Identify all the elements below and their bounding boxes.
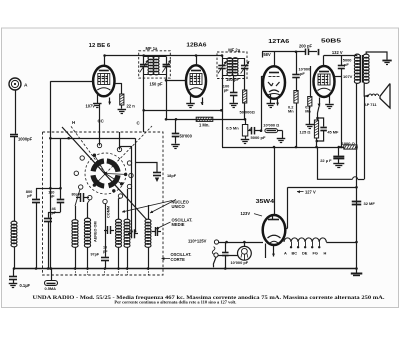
- label 150 pF (MF2a): [226, 77, 239, 82]
- wire switch contact up: [119, 132, 121, 150]
- capacitor 32MF: [352, 201, 376, 206]
- svg-text:pF: pF: [300, 71, 305, 76]
- rotary wave-band switch S1: [74, 143, 133, 203]
- V1 cathode arrow: [108, 98, 111, 105]
- svg-text:FG: FG: [313, 250, 318, 255]
- wire coil to bus: [13, 247, 16, 270]
- svg-text:Per corrente continua o altern: Per corrente continua o alternata della …: [114, 300, 236, 305]
- shield ties: [76, 269, 149, 275]
- svg-text:10'000 Ω: 10'000 Ω: [263, 122, 279, 127]
- switch blade: [213, 257, 216, 267]
- capacitor 10000pF: [292, 52, 310, 78]
- MF2a ties: [222, 59, 245, 76]
- label 12BA6: [186, 42, 207, 48]
- wire V1 grid: [50, 81, 93, 83]
- oscillator coil corte L3: [145, 205, 151, 270]
- capacitor 45MF bypass: [316, 118, 340, 142]
- label 35W4: [256, 199, 275, 205]
- svg-text:58V: 58V: [263, 52, 271, 57]
- V3 cathode arrow: [276, 98, 279, 106]
- label 12TA6: [268, 39, 290, 45]
- MF2a trimmer cap left: [218, 54, 227, 73]
- wire left internal: [49, 81, 52, 270]
- V5 pin: [265, 244, 267, 259]
- svg-text:18pF: 18pF: [167, 173, 177, 178]
- capacitor osc mid: [128, 229, 138, 238]
- svg-text:BC: BC: [292, 250, 298, 255]
- capacitor 10000pF line: [222, 242, 249, 270]
- resistor 22n R1: [114, 83, 135, 113]
- svg-text:pF: pF: [224, 88, 229, 93]
- svg-text:COMM: COMM: [107, 206, 111, 218]
- capacitor 50000 AVC: [171, 119, 192, 148]
- wire V2 plate: [195, 54, 198, 65]
- wire antenna to coil: [14, 137, 16, 222]
- V2 cathode arrow: [201, 98, 204, 106]
- potentiometer 0.5Mn: [226, 119, 251, 143]
- svg-text:150 pF: 150 pF: [226, 77, 239, 82]
- plug contact upper: [214, 240, 218, 244]
- wire V3 cathode gnd: [267, 95, 276, 108]
- svg-text:0.5MA: 0.5MA: [45, 286, 57, 291]
- tube V2 12BA6: [186, 65, 206, 97]
- label AEREO OM: [94, 221, 98, 242]
- resistor 50000 R3: [240, 76, 256, 120]
- capacitor 110pF: [48, 138, 64, 202]
- tube V4 50B5: [314, 66, 335, 97]
- capacitor 200pF: [299, 43, 319, 55]
- antenna terminal A: [9, 78, 28, 90]
- wire voice coil return: [364, 96, 366, 179]
- switch pointer dashed to C: [106, 126, 153, 174]
- svg-text:µF: µF: [52, 210, 57, 215]
- svg-text:pF: pF: [50, 193, 55, 198]
- MF1a trimmer cap right: [162, 57, 171, 73]
- filament dropper humps: [284, 238, 358, 243]
- V4 cathode arrow: [318, 98, 321, 107]
- capacitor 22uF: [320, 146, 344, 168]
- capacitor osc left 10pF: [103, 226, 114, 254]
- wire screen drop: [338, 55, 352, 148]
- label AP 711: [364, 102, 378, 107]
- capacitor 18pF trimmer: [135, 163, 177, 183]
- wire AVC line: [166, 118, 246, 121]
- svg-text:80pF: 80pF: [72, 193, 81, 197]
- wire switch contact to tube: [99, 104, 101, 146]
- label 110-125V: [188, 238, 207, 243]
- resistor 0.5Mn grid: [305, 66, 314, 129]
- capacitor 97pF padder: [91, 204, 110, 270]
- label OSCILLAT MEDIE: [156, 217, 192, 229]
- wire B+ rail: [222, 110, 344, 148]
- svg-text:1000pF: 1000pF: [18, 137, 33, 142]
- resistor 1000 ohm filter: [342, 141, 357, 149]
- wire MF2a left down: [222, 76, 224, 111]
- svg-text:MF 1a: MF 1a: [146, 46, 159, 51]
- svg-text:150 pF: 150 pF: [150, 82, 163, 87]
- MF1a trimmer cap left: [140, 54, 149, 72]
- svg-text:Mn: Mn: [305, 109, 311, 114]
- oscillator coil medie L2b: [124, 189, 130, 270]
- svg-text:Mn: Mn: [288, 109, 294, 114]
- antenna coil L1: [11, 221, 17, 247]
- svg-text:MF 2a: MF 2a: [228, 48, 241, 53]
- wire antenna down: [15, 90, 17, 134]
- svg-text:H: H: [72, 120, 75, 125]
- V5 heater arrow: [272, 245, 275, 256]
- wire V4 beam gnd: [325, 96, 334, 109]
- svg-text:127 V: 127 V: [305, 189, 316, 194]
- filament taps: [290, 242, 321, 248]
- resistor 125 ohm: [300, 107, 320, 149]
- wire V5 top to rail: [274, 147, 276, 215]
- wire feedback: [318, 147, 365, 180]
- capacitor 46uF padding: [44, 203, 61, 270]
- wire V3 grid: [261, 76, 263, 131]
- capacitor 0.1uF: [9, 269, 17, 280]
- MF2a trimmer cap right: [241, 58, 250, 74]
- capacitor 100pF: [223, 76, 238, 108]
- svg-text:107V: 107V: [85, 104, 95, 109]
- svg-text:pF: pF: [344, 62, 349, 67]
- svg-text:A: A: [24, 83, 28, 89]
- ground secondary: [382, 61, 391, 65]
- label H: [72, 120, 75, 125]
- IF transformer MF2a dashed box: [217, 52, 247, 79]
- voice coil: [369, 94, 379, 96]
- label 123V: [241, 211, 263, 216]
- capacitor osc right: [152, 227, 162, 236]
- MF1a top tie: [144, 56, 167, 58]
- chassis bus wire: [13, 268, 357, 270]
- switch shaft diagonal: [62, 127, 147, 220]
- wire plate bus top: [103, 54, 222, 57]
- tube V1 12BE6: [93, 66, 114, 97]
- resistor 10000 grid: [263, 122, 285, 142]
- label MF 2a: [228, 48, 241, 53]
- pilot lamp: [238, 242, 252, 260]
- resistor 0.2Mn: [288, 77, 298, 148]
- wire V5 plate to B+: [285, 187, 288, 228]
- svg-text:32 MF: 32 MF: [364, 201, 376, 206]
- dashed shield box tuning section: [43, 132, 164, 275]
- capacitor 1000pF antenna: [10, 135, 33, 142]
- label CC: [98, 119, 105, 124]
- label 58V: [263, 52, 271, 57]
- svg-text:UNICO: UNICO: [172, 204, 186, 209]
- svg-text:22 n: 22 n: [127, 104, 136, 109]
- wire B- column: [355, 83, 358, 270]
- svg-text:0.5 Mn: 0.5 Mn: [226, 126, 239, 131]
- svg-text:AEREO OM: AEREO OM: [94, 221, 98, 242]
- label 107V arrow: [334, 74, 352, 79]
- wire V3 plate: [263, 52, 275, 67]
- svg-text:45 MF: 45 MF: [327, 129, 339, 134]
- svg-text:CC: CC: [98, 119, 105, 124]
- svg-text:A: A: [284, 250, 287, 255]
- svg-text:50'000: 50'000: [180, 134, 193, 139]
- label 50B5: [321, 39, 342, 45]
- label NUCLEO UNICO: [122, 199, 190, 213]
- svg-text:50B5: 50B5: [321, 39, 342, 45]
- IF transformer MF1a dashed box: [139, 51, 171, 78]
- wire osc line: [144, 109, 223, 112]
- label 132 V: [332, 50, 343, 55]
- label 12 BE 6: [89, 43, 111, 49]
- resistor 1 Mn R2: [196, 117, 213, 127]
- svg-text:MEDIE: MEDIE: [172, 222, 185, 227]
- capacitor 800pF: [26, 188, 51, 270]
- svg-text:125 Ω: 125 Ω: [300, 130, 312, 135]
- svg-text:50'000Ω: 50'000Ω: [240, 110, 256, 115]
- svg-text:1 Mn.: 1 Mn.: [199, 122, 209, 127]
- caption line 1: [33, 296, 386, 301]
- coil aereo secondary: [84, 200, 90, 270]
- speaker cone: [366, 84, 390, 109]
- wire secondary top: [366, 52, 387, 60]
- label 150 pF (MF1a): [150, 82, 163, 87]
- svg-text:107V: 107V: [343, 74, 353, 79]
- output transformer T1 primary: [354, 54, 360, 83]
- label OSCILLAT CORTE: [162, 252, 192, 262]
- caption line 2: [114, 300, 236, 305]
- label C: [137, 121, 141, 126]
- wire +127V rail: [288, 186, 358, 189]
- oscillator coil medie L2: [116, 198, 122, 270]
- svg-text:CORTE: CORTE: [171, 257, 186, 262]
- wire V4 plate: [324, 55, 358, 66]
- wire line lower: [218, 255, 238, 257]
- wire V1 cathode gnd: [93, 93, 102, 108]
- label 107V: [85, 104, 95, 109]
- AC squiggle: [212, 247, 215, 255]
- wire bandswitch top2: [120, 146, 133, 233]
- MF1a coil secondary: [154, 56, 159, 75]
- svg-text:12 BE 6: 12 BE 6: [89, 43, 111, 49]
- output transformer core: [361, 55, 363, 83]
- label MF 1a: [146, 46, 159, 51]
- label +127V: [297, 189, 316, 194]
- switch pointer dashed to H: [70, 125, 106, 174]
- wire filament line: [219, 241, 263, 244]
- svg-text:132 V: 132 V: [332, 50, 343, 55]
- svg-text:AP 711: AP 711: [364, 102, 378, 107]
- svg-text:12TA6: 12TA6: [268, 39, 290, 45]
- MF2a coil primary: [227, 58, 232, 76]
- tube V5 35W4: [263, 215, 286, 245]
- coil aereo primary: [72, 189, 80, 270]
- MF1a coil primary: [148, 56, 153, 75]
- svg-text:pF: pF: [27, 193, 32, 198]
- svg-text:12BA6: 12BA6: [186, 42, 207, 48]
- fuse 0.5MA: [45, 267, 58, 291]
- plug contact lower: [214, 253, 218, 257]
- svg-text:H: H: [324, 250, 327, 255]
- wire V1 plate: [104, 56, 106, 66]
- svg-text:35W4: 35W4: [256, 199, 275, 205]
- capacitor 80pF: [72, 193, 90, 203]
- wire V2 grid: [165, 79, 187, 82]
- svg-text:123V: 123V: [241, 211, 251, 216]
- wire V2 cathode gnd: [186, 94, 195, 108]
- wire coupling top: [262, 51, 305, 54]
- svg-text:DE: DE: [302, 250, 308, 255]
- wire MF1a sec down: [142, 75, 145, 133]
- output transformer secondary: [363, 54, 369, 83]
- MF1a bottom tie: [144, 67, 167, 75]
- wire secondary bottom: [364, 83, 368, 96]
- svg-text:5000 pF: 5000 pF: [251, 135, 266, 140]
- svg-text:97pF: 97pF: [91, 253, 100, 257]
- ground main: [351, 269, 363, 276]
- svg-text:200 pF: 200 pF: [299, 43, 312, 48]
- svg-text:0.1µF: 0.1µF: [20, 283, 31, 288]
- svg-text:10'000 pF: 10'000 pF: [231, 260, 249, 265]
- wire bandswitch top: [50, 138, 136, 233]
- capacitor 5000pF coupling: [248, 127, 266, 140]
- label COMM: [107, 206, 111, 218]
- labels A BC DE FG H: [284, 250, 327, 255]
- svg-text:110÷125V: 110÷125V: [188, 238, 207, 243]
- switch spokes: [94, 155, 125, 185]
- wire MF1a right down: [165, 75, 168, 121]
- tube V3 12TA6: [263, 66, 285, 99]
- ground 0.1uF: [9, 280, 31, 288]
- svg-text:22 µ F: 22 µ F: [320, 158, 332, 163]
- MF2a coil secondary: [233, 58, 238, 76]
